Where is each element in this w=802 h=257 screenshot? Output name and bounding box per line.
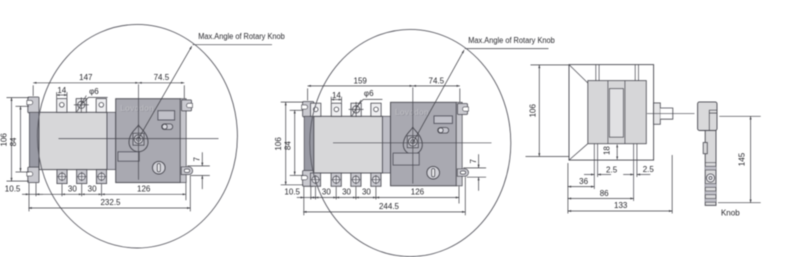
- side view outer housing: [569, 65, 654, 161]
- body right band view 1: [107, 112, 116, 169]
- padlock cylinder view 1: [153, 161, 166, 174]
- svg-text:244.5: 244.5: [379, 202, 400, 211]
- right edge plate view 2: [456, 102, 462, 186]
- top terminal lug 1 view 2: [311, 103, 321, 116]
- svg-text:Max.Angle of Rotary Knob: Max.Angle of Rotary Knob: [468, 36, 555, 45]
- max-angle ellipse view 1: [37, 24, 237, 248]
- vertical centerline view 2: [412, 87, 414, 183]
- svg-text:2.5: 2.5: [643, 165, 655, 174]
- dimension 106 view 2: [281, 101, 304, 103]
- right mounting tab bottom view 2: [457, 169, 468, 177]
- svg-text:74.5: 74.5: [429, 76, 445, 85]
- chain dimension 30 spacing view 2: [311, 197, 316, 199]
- svg-text:10.5: 10.5: [284, 188, 300, 197]
- rotary knob pointer view 2: [403, 127, 422, 154]
- side view top post left: [595, 65, 597, 81]
- svg-text:φ6: φ6: [364, 89, 374, 98]
- svg-text:2.5: 2.5: [606, 165, 618, 174]
- indicator window view 1: [158, 111, 175, 120]
- svg-text:106: 106: [0, 133, 9, 147]
- svg-text:14: 14: [332, 91, 341, 100]
- dimension 14 view 2: [330, 97, 332, 103]
- switch body view 1: [39, 112, 107, 169]
- label phi6 leader view 2: [357, 99, 382, 106]
- knob profile head notch: [709, 110, 717, 130]
- svg-text:30: 30: [68, 185, 77, 194]
- svg-text:30: 30: [342, 188, 351, 197]
- top terminal lug 3 view 1: [96, 99, 106, 113]
- small latch button view 1: [162, 124, 173, 130]
- knob profile side clip: [703, 143, 707, 154]
- extension line right top dim view 2: [459, 88, 461, 102]
- bottom terminal 3 view 1: [96, 170, 106, 184]
- left side plate view 1: [29, 112, 39, 167]
- extension line left top dim view 1: [32, 85, 34, 96]
- svg-text:7: 7: [193, 157, 202, 162]
- bottom terminal 1 view 2: [310, 173, 320, 186]
- svg-text:Knob: Knob: [721, 208, 740, 217]
- callout underline view 2: [465, 48, 549, 50]
- dimension 18 side view: [616, 145, 618, 160]
- rotary knob square base view 2: [407, 136, 418, 148]
- svg-text:30: 30: [362, 188, 371, 197]
- bottom terminal 2 view 2: [331, 173, 341, 186]
- svg-text:7: 7: [469, 159, 478, 164]
- dimension 145 knob: [719, 115, 760, 117]
- leader arrow to rotary knob view 1: [139, 46, 192, 138]
- svg-text:133: 133: [614, 201, 628, 210]
- knob profile handle bar: [705, 131, 716, 206]
- bottom terminal 2 view 1: [77, 170, 87, 184]
- bottom terminal 3 view 2: [351, 173, 361, 186]
- extension line right top dim view 1: [183, 85, 185, 98]
- side view centre column: [607, 81, 609, 144]
- chain dimension 30 spacing view 1: [36, 193, 62, 195]
- padlock cylinder view 2: [427, 166, 440, 179]
- svg-text:30: 30: [322, 188, 331, 197]
- nameplate recess view 2: [393, 153, 419, 165]
- leader arrow to rotary knob view 2: [413, 50, 464, 143]
- svg-text:φ6: φ6: [89, 87, 99, 96]
- right mounting hook top view 2: [458, 104, 468, 115]
- left mounting bracket top view 2: [303, 102, 314, 117]
- side view shaft centerline: [647, 113, 695, 115]
- max-angle ellipse view 2: [310, 29, 511, 256]
- svg-text:106: 106: [529, 103, 538, 117]
- left side plate view 2: [304, 116, 314, 171]
- extension lines bottom chain view 1: [28, 183, 30, 211]
- left mounting bracket bottom view 2: [303, 171, 314, 187]
- dimension 14 view 1: [56, 92, 58, 98]
- top terminal lug 4 view 2: [371, 103, 381, 116]
- dimension 36 side view: [568, 186, 594, 188]
- svg-text:14: 14: [57, 86, 66, 95]
- left mounting bracket bottom view 1: [28, 167, 39, 183]
- dimension 74.5 view 2: [413, 85, 460, 87]
- right edge plate view 1: [180, 99, 186, 183]
- dimension 7 tab view 2: [463, 167, 486, 169]
- rotary knob shaft circles view 1: [134, 135, 143, 144]
- extension line 133 right: [671, 155, 673, 214]
- svg-text:126: 126: [137, 185, 151, 194]
- knob profile lock ring: [706, 174, 714, 182]
- rotary knob shaft circles view 2: [408, 137, 417, 146]
- svg-text:232.5: 232.5: [100, 198, 121, 207]
- dimension 244.5 view 2: [303, 211, 465, 213]
- dimension 84 view 2: [290, 109, 304, 111]
- side view centre slot: [609, 89, 623, 138]
- dimension 2.5 left side view: [584, 174, 594, 176]
- label phi6 leader view 1: [82, 97, 107, 103]
- rotary knob pointer view 1: [129, 125, 148, 152]
- side view top post right: [634, 65, 636, 81]
- dimension 10.5 view 2: [297, 197, 304, 199]
- svg-text:Lovodon: Lovodon: [395, 108, 429, 117]
- knob profile grip bands: [705, 166, 716, 170]
- svg-text:86: 86: [600, 189, 609, 198]
- svg-text:18: 18: [603, 146, 612, 155]
- dimension 84 view 1: [16, 105, 30, 107]
- svg-text:126: 126: [411, 188, 425, 197]
- svg-text:36: 36: [579, 177, 588, 186]
- svg-text:74.5: 74.5: [154, 73, 170, 82]
- right mounting tab bottom view 1: [181, 167, 192, 175]
- horizontal centerline view 2: [333, 142, 492, 144]
- mounting hole phi6 symbol view 1: [78, 101, 85, 108]
- dimension 86 side view: [568, 198, 634, 200]
- top terminal lug 2 view 2: [331, 103, 341, 116]
- vertical centerline view 1: [138, 84, 140, 179]
- top terminal lug 1 view 1: [57, 99, 67, 113]
- dimension 2.5 right side view: [623, 174, 633, 176]
- bottom terminal 1 view 1: [57, 170, 67, 184]
- body right band view 2: [383, 116, 391, 173]
- side view shaft boss: [654, 103, 661, 124]
- svg-text:145: 145: [738, 152, 747, 166]
- svg-text:159: 159: [354, 76, 368, 85]
- operating mechanism box view 1: [116, 99, 181, 183]
- svg-text:Lovodon: Lovodon: [120, 104, 154, 113]
- side view inner body: [588, 81, 647, 144]
- top terminal lug 3 view 2: [351, 103, 361, 116]
- dimension 126 view 2: [376, 197, 459, 199]
- small latch button view 2: [438, 128, 449, 134]
- bottom terminal 4 view 2: [371, 173, 381, 186]
- extension lines bottom chain view 2: [303, 187, 305, 216]
- svg-text:106: 106: [274, 137, 283, 151]
- dimension 159 view 2: [308, 85, 413, 87]
- side view leg right: [633, 144, 635, 201]
- callout underline view 1: [193, 44, 273, 46]
- nameplate recess view 1: [118, 152, 139, 161]
- horizontal centerline view 1: [59, 138, 219, 140]
- dimension 7 tab view 1: [187, 165, 210, 167]
- indicator window view 2: [434, 116, 452, 124]
- mounting hole phi6 symbol view 2: [353, 106, 360, 113]
- right mounting hook top view 1: [182, 100, 192, 111]
- dimension 106 view 1: [7, 97, 30, 99]
- side view shaft: [660, 108, 673, 119]
- svg-text:30: 30: [88, 185, 97, 194]
- top terminal lug 2 view 1: [76, 99, 86, 113]
- switch body view 2: [314, 116, 383, 173]
- svg-text:10.5: 10.5: [5, 185, 21, 194]
- extension line left top dim view 2: [307, 88, 309, 100]
- dimension 232.5 view 1: [29, 207, 191, 209]
- side view leg left: [593, 144, 595, 189]
- svg-text:84: 84: [9, 137, 18, 146]
- rotary knob square base view 1: [133, 133, 144, 145]
- extension line 133 left: [567, 163, 569, 214]
- dimension 74.5 view 1: [139, 82, 185, 84]
- dimension 10.5 view 1: [22, 193, 29, 195]
- svg-text:147: 147: [79, 73, 93, 82]
- left mounting bracket top view 1: [28, 97, 39, 113]
- dimension 106 side view: [531, 64, 571, 66]
- dimension 147 view 1: [33, 82, 138, 84]
- side view left bevel top: [569, 65, 588, 83]
- operating mechanism box view 2: [391, 102, 457, 186]
- side view left bevel bottom: [569, 144, 588, 160]
- dimension 126 view 1: [102, 193, 186, 195]
- knob profile head: [698, 102, 717, 131]
- svg-text:Max.Angle of Rotary Knob: Max.Angle of Rotary Knob: [198, 32, 285, 41]
- dimension 133 side view: [568, 210, 672, 212]
- svg-text:84: 84: [283, 141, 292, 150]
